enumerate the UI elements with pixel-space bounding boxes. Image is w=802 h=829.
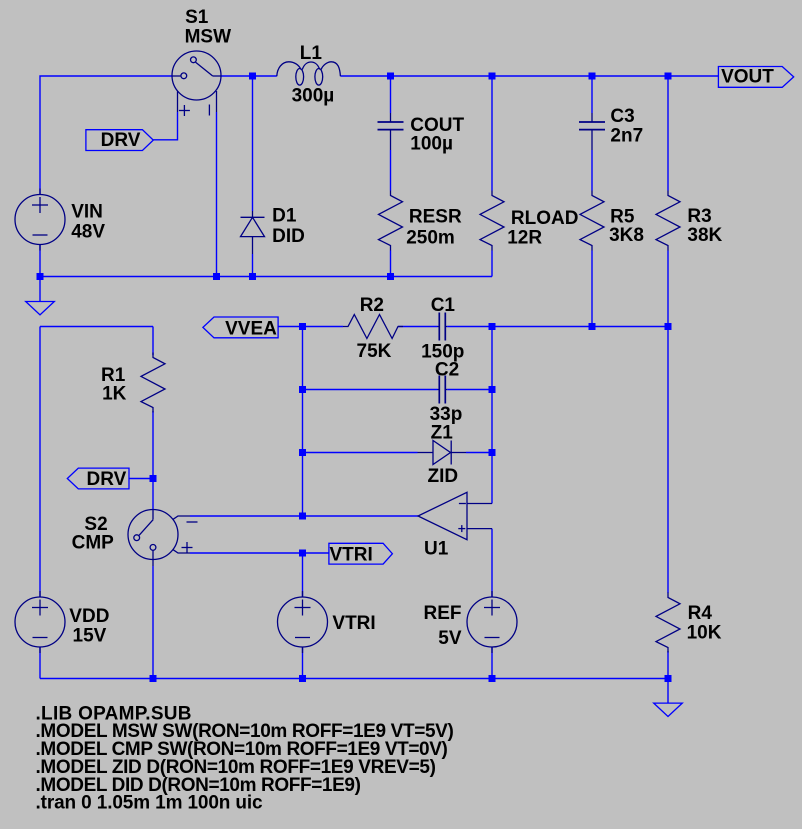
svg-text:D1: D1 bbox=[272, 205, 297, 226]
svg-text:ZID: ZID bbox=[428, 466, 459, 487]
svg-text:VIN: VIN bbox=[71, 202, 103, 223]
svg-text:5V: 5V bbox=[438, 628, 462, 649]
svg-text:C2: C2 bbox=[435, 360, 459, 381]
svg-text:300µ: 300µ bbox=[292, 85, 335, 106]
svg-text:C1: C1 bbox=[431, 295, 456, 316]
svg-text:VTRI: VTRI bbox=[332, 613, 375, 634]
svg-text:R2: R2 bbox=[360, 295, 384, 316]
svg-text:REF: REF bbox=[424, 603, 462, 624]
svg-text:VOUT: VOUT bbox=[721, 67, 774, 88]
svg-text:R3: R3 bbox=[687, 206, 711, 227]
svg-text:DID: DID bbox=[272, 226, 305, 247]
svg-text:15V: 15V bbox=[73, 625, 107, 646]
svg-text:RLOAD: RLOAD bbox=[511, 208, 579, 229]
svg-text:VVEA: VVEA bbox=[225, 319, 277, 340]
svg-text:38K: 38K bbox=[687, 225, 722, 246]
svg-text:Z1: Z1 bbox=[431, 423, 454, 444]
svg-text:DRV: DRV bbox=[101, 130, 141, 151]
svg-text:U1: U1 bbox=[424, 538, 449, 559]
svg-text:100µ: 100µ bbox=[410, 134, 453, 155]
svg-text:DRV: DRV bbox=[87, 469, 127, 490]
svg-text:75K: 75K bbox=[357, 341, 392, 362]
svg-text:3K8: 3K8 bbox=[609, 225, 644, 246]
svg-text:12R: 12R bbox=[507, 227, 542, 248]
svg-text:10K: 10K bbox=[687, 622, 722, 643]
svg-text:48V: 48V bbox=[71, 222, 105, 243]
svg-text:MSW: MSW bbox=[185, 27, 232, 48]
svg-text:2n7: 2n7 bbox=[610, 125, 643, 146]
svg-text:C3: C3 bbox=[610, 106, 634, 127]
svg-text:.tran 0 1.05m 1m 100n uic: .tran 0 1.05m 1m 100n uic bbox=[36, 793, 264, 814]
svg-text:R4: R4 bbox=[688, 603, 713, 624]
svg-text:1K: 1K bbox=[102, 383, 127, 404]
svg-text:VTRI: VTRI bbox=[330, 545, 373, 566]
svg-text:250m: 250m bbox=[406, 228, 455, 249]
svg-text:S1: S1 bbox=[185, 7, 209, 28]
svg-text:CMP: CMP bbox=[72, 533, 115, 554]
svg-text:L1: L1 bbox=[300, 43, 323, 64]
svg-text:VDD: VDD bbox=[69, 606, 109, 627]
svg-text:RESR: RESR bbox=[409, 206, 462, 227]
